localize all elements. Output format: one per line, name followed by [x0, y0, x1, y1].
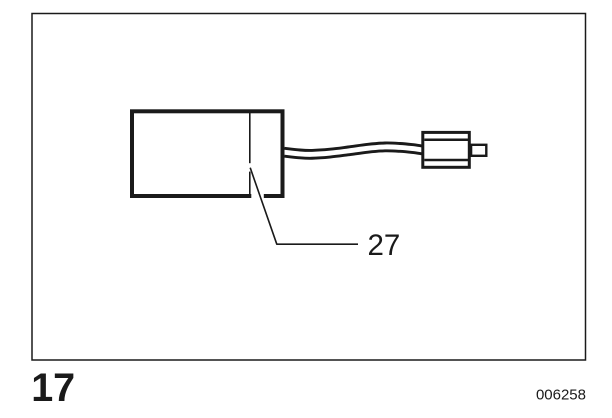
wire harness top — [285, 143, 423, 150]
wire harness bottom — [285, 151, 423, 158]
svg-text:17: 17 — [31, 366, 75, 410]
connector inner bottom line — [424, 159, 469, 162]
divider line lower segment — [249, 172, 251, 194]
divider line upper segment — [249, 111, 251, 163]
connector inner top line — [424, 139, 469, 142]
leader line to label 27 — [250, 168, 358, 245]
frame border — [32, 14, 586, 361]
connector body — [423, 132, 470, 167]
gap in box bottom border where leader crosses — [251, 193, 263, 201]
connector tab — [471, 145, 486, 156]
svg-text:27: 27 — [368, 229, 401, 262]
svg-text:006258: 006258 — [536, 386, 586, 403]
component box (part 27) — [132, 111, 283, 196]
